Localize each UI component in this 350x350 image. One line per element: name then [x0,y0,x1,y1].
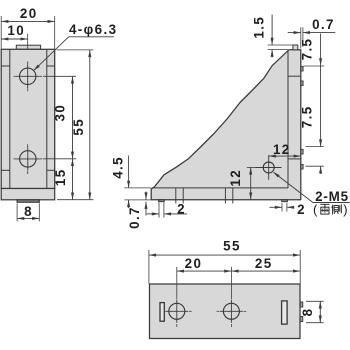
bottom view: centerline hole B1 [176,267,178,327]
front view: base plate [1,189,55,200]
svg-text:10: 10 [7,23,25,38]
svg-text:20: 20 [185,256,203,271]
label 2-M5 leader [273,172,350,203]
front view: top tab [16,45,40,49]
front view: plate outline [1,49,55,188]
svg-text:0.7: 0.7 [312,17,335,32]
dim 2 (foot width right) [270,202,307,217]
svg-text:30: 30 [53,104,68,122]
gusset: base slot lines 2 [225,188,232,204]
svg-text:8: 8 [300,308,315,317]
svg-text:2: 2 [297,202,306,217]
gusset: claw C [301,149,303,154]
gusset: M5 side hole [256,155,282,180]
svg-text:(: ( [313,202,318,217]
dim 0.7 (foot height) [124,192,151,229]
svg-text:7.5: 7.5 [300,38,315,61]
dim 7.5 lower [300,105,324,174]
svg-text:55: 55 [71,118,86,136]
bottom view: hole B2 [220,300,243,323]
bottom view: plate [150,284,301,339]
svg-text:8: 8 [24,204,33,219]
front view: centerline [27,34,29,174]
gusset: claw D [301,164,303,169]
dim 25 (hole to edge) [231,256,300,273]
gusset: hole axis upper [288,75,301,77]
bottom view: claw tab upper [300,302,303,307]
dim 12 vertical (M5 height) [228,167,258,199]
bottom view: slot right [282,301,288,324]
gusset silhouette [151,50,301,200]
gusset: claw B [301,81,303,86]
bottom view: hole B2 dashes [217,310,247,312]
front view: left inner edge line [9,50,11,189]
front view: hole H1 [16,65,39,88]
front view: bottom rib tab [17,200,39,202]
svg-text:12: 12 [228,169,243,187]
svg-text:15: 15 [53,168,68,186]
front view: claw edge lines upper [1,65,54,67]
dim 8 (claw span) [300,301,324,322]
gusset: web/base fillet line [152,187,288,189]
dim 0.7 (claw depth top) [288,17,336,48]
bottom view: slot left [160,303,164,322]
dim 8 (bottom tab width) [17,203,39,221]
dim 12 horizontal (M5 offset) [269,142,301,158]
dim 2 (foot width left) [147,201,187,217]
gusset: foot right [282,200,288,202]
gusset: hole axis lower [288,158,301,160]
bottom view: claw tab lower [300,316,303,321]
dim 20 (width) [1,6,55,49]
front view: right inner edge line [46,50,48,189]
gusset: web/plate edge line [287,50,289,188]
svg-text:7.5: 7.5 [300,105,315,128]
gusset: top tab [293,45,298,50]
dim 55 (height) [57,50,94,200]
dim 10 (hole offset) [1,23,28,41]
bottom view: hole B1 dashes [162,310,192,312]
svg-text:20: 20 [20,6,38,21]
front view: hole H2 [16,147,39,170]
dim 1.5 (top tab height) [251,15,293,58]
front view: hole H1 center dashes [13,75,42,77]
gusset: claw A [301,66,303,71]
dim 20 (hole pitch) [177,256,232,273]
dim 15 (bottom hole) [53,159,74,200]
svg-text:0.7: 0.7 [127,206,142,229]
svg-text:): ) [343,202,347,217]
bottom view: hole B1 [165,300,188,323]
dim 4.5 (base thickness) [110,156,151,209]
gusset: foot left [159,200,165,202]
bottom view: centerline hole B2 [230,267,232,327]
dim 55 (length) [149,239,300,284]
svg-text:4.5: 4.5 [110,156,125,179]
front view: claw edge lines lower [1,169,54,171]
label (ryougawa) parens+kanji [313,202,348,217]
svg-text:55: 55 [223,239,241,254]
svg-text:4-φ6.3: 4-φ6.3 [69,22,118,37]
dim 30 (hole pitch) [43,76,76,159]
svg-text:1.5: 1.5 [251,16,266,39]
svg-text:25: 25 [255,256,273,271]
label 2-M5 text [315,189,349,204]
label 4-phi6.3 [33,22,117,71]
front view: hole H2 center dashes [14,158,43,160]
dim 7.5 upper [300,34,325,147]
gusset: base slot lines 1 [176,188,183,204]
